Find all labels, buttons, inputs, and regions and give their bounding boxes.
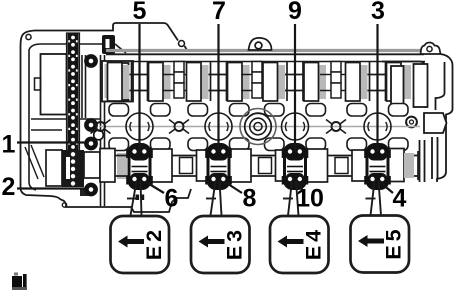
- svg-text:6: 6: [165, 185, 179, 213]
- svg-text:5: 5: [133, 0, 147, 25]
- svg-text:4: 4: [393, 185, 407, 213]
- svg-text:E3: E3: [223, 226, 247, 260]
- svg-text:10: 10: [296, 185, 324, 213]
- svg-text:E4: E4: [302, 226, 326, 260]
- svg-text:1: 1: [2, 131, 16, 159]
- svg-text:7: 7: [212, 0, 226, 25]
- svg-text:8: 8: [243, 185, 257, 213]
- svg-text:9: 9: [288, 0, 302, 25]
- svg-text:E5: E5: [382, 225, 406, 259]
- svg-text:2: 2: [2, 173, 16, 201]
- svg-text:E2: E2: [142, 226, 166, 260]
- svg-text:3: 3: [371, 0, 385, 25]
